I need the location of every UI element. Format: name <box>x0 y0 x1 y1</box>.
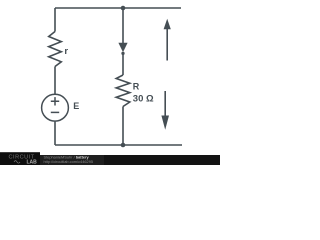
svg-text:r: r <box>64 46 68 57</box>
svg-text:LAB: LAB <box>27 160 38 165</box>
svg-text:http://circuitlab.com/c446295: http://circuitlab.com/c446295 <box>44 159 94 164</box>
svg-text:R: R <box>133 82 140 92</box>
svg-text:30 Ω: 30 Ω <box>133 93 154 104</box>
svg-text:E: E <box>73 101 79 111</box>
